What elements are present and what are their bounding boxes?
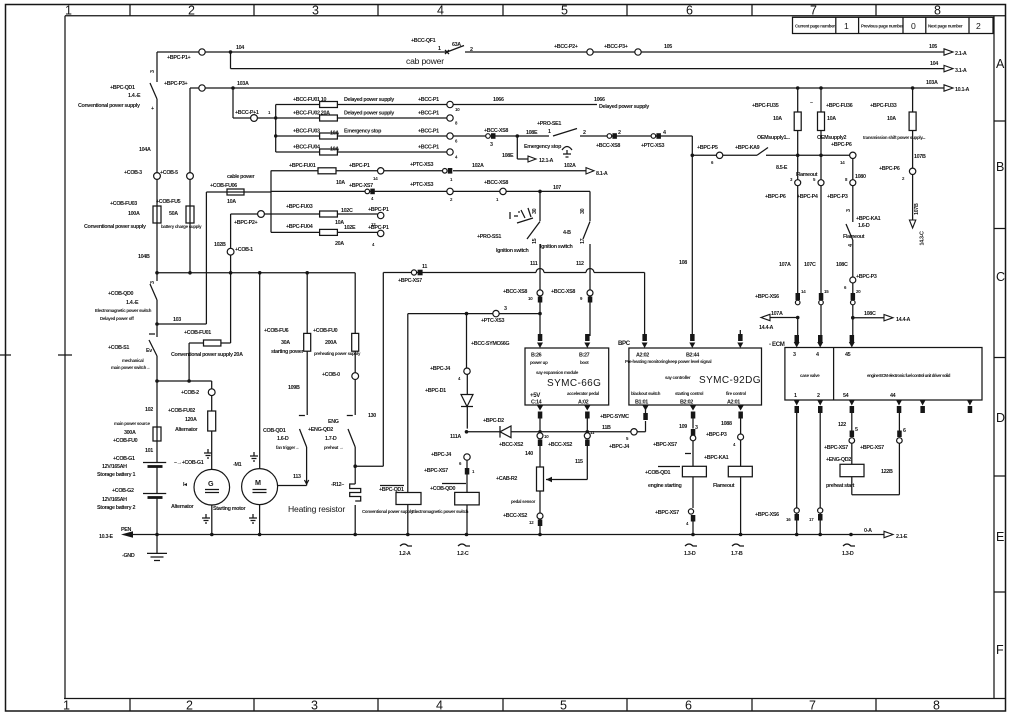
svg-text:+BPC-P3: +BPC-P3 xyxy=(706,432,727,438)
R2 wiper from XS2-11 xyxy=(546,446,587,480)
svg-text:3: 3 xyxy=(312,4,319,18)
svg-text:+BCC-FU04: +BCC-FU04 xyxy=(293,145,320,151)
connector circle +COB-0 xyxy=(352,373,359,380)
connector circle +BPC-P3+ xyxy=(199,85,205,91)
svg-text:1.7-D: 1.7-D xyxy=(325,436,337,442)
svg-text:12V/165AH: 12V/165AH xyxy=(102,464,127,470)
svg-text:engine ECM electronic fuel con: engine ECM electronic fuel control unit … xyxy=(867,373,951,378)
wire after SE1 xyxy=(580,135,692,137)
svg-text:108C: 108C xyxy=(836,262,848,268)
svg-text:3: 3 xyxy=(150,70,156,73)
pin A2:02 top xyxy=(642,334,647,341)
pin A2:01 bottom xyxy=(738,406,744,411)
svg-text:+PTC-XS3: +PTC-XS3 xyxy=(641,143,664,149)
svg-text:100A: 100A xyxy=(128,211,140,217)
wire M1 feed from QD1 contact xyxy=(278,447,307,486)
wire ignition feed line y=313.6 xyxy=(408,313,540,315)
svg-text:10A: 10A xyxy=(887,116,896,122)
svg-text:45: 45 xyxy=(845,352,851,358)
relay coil +ENG-QD2 preheat xyxy=(840,464,864,476)
svg-text:3: 3 xyxy=(695,425,698,431)
svg-text:+COB-FU6: +COB-FU6 xyxy=(264,328,289,334)
fuse row +BPC-FU01 10A xyxy=(271,170,447,172)
wire ECM pin2 to bus xyxy=(819,413,821,535)
svg-text:120A: 120A xyxy=(185,417,197,423)
wire column COB-1 xyxy=(230,214,232,343)
svg-text:+BCC-XS8: +BCC-XS8 xyxy=(484,180,508,186)
fuse +COB-FU02 120A xyxy=(208,411,216,431)
svg-text:-M1: -M1 xyxy=(233,462,242,468)
svg-text:+BCC-P3+: +BCC-P3+ xyxy=(604,44,628,50)
wire column COB-5 xyxy=(189,88,191,273)
svg-text:+COB-FU0: +COB-FU0 xyxy=(313,328,338,334)
svg-text:+BPC-XS7: +BPC-XS7 xyxy=(655,510,679,516)
SE1 mushroom actuator xyxy=(562,147,572,158)
svg-text:Delayed power supply: Delayed power supply xyxy=(344,111,394,117)
wire bus end arrow 0-A 2.1-E xyxy=(884,531,893,537)
svg-text:3: 3 xyxy=(150,281,156,284)
svg-text:+BPC-FU03: +BPC-FU03 xyxy=(286,204,313,210)
wire KA1 column xyxy=(852,159,854,336)
svg-text:108E: 108E xyxy=(502,153,514,159)
switch +COB-QD0 electromagnetic power switch xyxy=(150,273,157,324)
svg-text:122B: 122B xyxy=(881,469,893,475)
svg-text:+BPC-FU01: +BPC-FU01 xyxy=(289,163,316,169)
column ticks top xyxy=(130,5,876,16)
svg-text:+BPC-FU04: +BPC-FU04 xyxy=(286,224,313,230)
svg-text:+BPC-P6: +BPC-P6 xyxy=(765,194,786,200)
svg-text:108C: 108C xyxy=(864,311,876,317)
svg-text:+BPC-P4: +BPC-P4 xyxy=(797,194,818,200)
svg-text:+BPC-XS6: +BPC-XS6 xyxy=(755,294,779,300)
svg-text:BPC: BPC xyxy=(618,340,631,347)
svg-text:30A: 30A xyxy=(281,340,290,346)
connector circle+pin +BCC-XS2 pin10 xyxy=(537,433,543,439)
svg-text:105: 105 xyxy=(929,44,937,50)
svg-text:113: 113 xyxy=(293,474,301,480)
svg-text:Delayed power off: Delayed power off xyxy=(100,316,134,321)
svg-text:1066: 1066 xyxy=(493,97,504,103)
svg-text:+BPC-SYMC: +BPC-SYMC xyxy=(600,414,629,420)
svg-text:say controller: say controller xyxy=(665,375,691,380)
switch +COB-S1 main power switch xyxy=(149,324,157,381)
svg-text:1.6-D: 1.6-D xyxy=(858,223,870,229)
svg-text:Ignition switch: Ignition switch xyxy=(496,248,529,254)
svg-text:2: 2 xyxy=(188,4,195,18)
fuse +COB-FU0 200A preheating power xyxy=(354,273,356,373)
wire 103A drop to BCC fuse block xyxy=(233,88,276,118)
svg-text:+BPC-P3+: +BPC-P3+ xyxy=(164,81,187,87)
svg-text:+BPC-P3: +BPC-P3 xyxy=(827,194,848,200)
chassis mark above M xyxy=(250,452,258,461)
node 103A junction xyxy=(231,86,235,90)
connector circle +BCC-XS8 pin1 xyxy=(500,188,506,194)
svg-text:+BPC-XS7: +BPC-XS7 xyxy=(349,183,373,189)
svg-text:1: 1 xyxy=(63,699,70,713)
svg-text:+BPC-D2: +BPC-D2 xyxy=(483,418,504,424)
svg-text:1.2-A: 1.2-A xyxy=(399,551,411,557)
relay contact +BPC-KA1 flameout xyxy=(846,186,853,240)
svg-text:+ENG-QD2: +ENG-QD2 xyxy=(826,457,851,463)
svg-text:12V/165AH: 12V/165AH xyxy=(102,497,127,503)
connector circle +BPC-P6 pin3 xyxy=(795,180,801,186)
wire engine start relay column xyxy=(692,419,694,467)
ECU box -ECM xyxy=(785,348,982,401)
wire emergency stop row to SE1 xyxy=(453,135,549,137)
svg-text:108: 108 xyxy=(679,260,687,266)
connector circle +PTC-XS3 pin3 xyxy=(493,310,499,316)
svg-text:4-B: 4-B xyxy=(563,230,571,236)
svg-text:Previous page number: Previous page number xyxy=(861,24,904,29)
svg-text:Conventional power supply 20A: Conventional power supply 20A xyxy=(171,352,243,358)
connector +BCC-XS8 pin2 xyxy=(612,133,617,139)
svg-text:+PRO-SE1: +PRO-SE1 xyxy=(537,121,561,127)
svg-text:1.4.-E: 1.4.-E xyxy=(126,300,139,306)
wire net 103A xyxy=(190,87,944,89)
svg-text:4: 4 xyxy=(437,4,444,18)
svg-text:0-A: 0-A xyxy=(864,528,872,534)
wire FU01 conventional supply loop xyxy=(157,343,231,389)
contactor COB-QD1 fan trigger xyxy=(299,416,307,448)
node B26 junction xyxy=(538,312,542,316)
connector +BPC-XS7 pin4 xyxy=(370,189,375,195)
svg-text:+BCC-XS2: +BCC-XS2 xyxy=(503,513,527,519)
svg-text:+COB-2: +COB-2 xyxy=(181,390,199,396)
svg-text:ENG: ENG xyxy=(328,419,339,425)
svg-text:1: 1 xyxy=(548,129,551,135)
svg-text:cable power: cable power xyxy=(227,174,256,180)
svg-text:+COB-QD0: +COB-QD0 xyxy=(108,291,134,297)
svg-text:blackout switch: blackout switch xyxy=(631,391,661,396)
svg-text:+COB-FU03: +COB-FU03 xyxy=(110,201,137,207)
svg-text:3: 3 xyxy=(793,352,796,358)
svg-text:-GND: -GND xyxy=(122,553,135,559)
node 103 junction xyxy=(155,322,159,326)
svg-text:10.1-A: 10.1-A xyxy=(955,87,970,93)
svg-text:200A: 200A xyxy=(325,340,337,346)
fuse +COB-FU5 50A xyxy=(186,206,194,223)
svg-text:+BPC-P3: +BPC-P3 xyxy=(856,274,877,280)
battery +COB-G1 12V/165AH xyxy=(143,462,166,464)
flag PEN 10.3-E xyxy=(121,531,133,537)
svg-text:50A: 50A xyxy=(169,211,178,217)
svg-text:mechanical: mechanical xyxy=(122,358,143,363)
svg-text:+PTC-XS3: +PTC-XS3 xyxy=(410,162,433,168)
svg-text:+BPC-XS7: +BPC-XS7 xyxy=(398,278,422,284)
connector circle +BPC-J4 pin4 xyxy=(464,368,470,374)
connector circle+pin +BCC-XS2 pin12 xyxy=(537,513,543,519)
node QD2 output junction xyxy=(353,464,357,468)
svg-text:SYMC-92DG: SYMC-92DG xyxy=(699,375,761,386)
svg-text:2: 2 xyxy=(817,393,820,399)
svg-text:11B: 11B xyxy=(602,425,611,431)
node XS2-10 junction xyxy=(538,430,542,434)
svg-text:122: 122 xyxy=(838,422,846,428)
node junction P5 line xyxy=(691,154,695,158)
svg-text:1.2-C: 1.2-C xyxy=(457,551,469,557)
svg-text:Ignition switch: Ignition switch xyxy=(540,244,573,250)
svg-text:+COB-FU01: +COB-FU01 xyxy=(184,330,211,336)
svg-text:14.4-A: 14.4-A xyxy=(896,317,911,323)
svg-text:B2:02: B2:02 xyxy=(680,400,693,406)
svg-text:111A: 111A xyxy=(450,434,461,440)
svg-text:keep power level signal: keep power level signal xyxy=(668,359,711,364)
svg-text:107A: 107A xyxy=(771,311,783,317)
svg-text:+BPC-KA1: +BPC-KA1 xyxy=(856,216,881,222)
pin A:02 bottom xyxy=(584,406,590,411)
connector circle +COB-3 xyxy=(154,173,161,180)
contactor +ENG-QD2 preheat xyxy=(347,379,355,466)
svg-text:+BCC-XS2: +BCC-XS2 xyxy=(499,442,523,448)
connector circle +BPC-P3 pin8 xyxy=(850,180,856,186)
svg-text:11: 11 xyxy=(422,264,427,270)
svg-text:30: 30 xyxy=(532,208,538,214)
battery +COB-G2 12V/165AH xyxy=(143,493,166,495)
svg-text:7: 7 xyxy=(810,4,817,18)
svg-text:+COB-FU06: +COB-FU06 xyxy=(210,183,237,189)
svg-text:8.1-A: 8.1-A xyxy=(596,171,608,177)
svg-text:1: 1 xyxy=(844,21,849,31)
svg-text:pedal sensor: pedal sensor xyxy=(511,499,536,504)
fuse +COB-FU03 100A xyxy=(153,206,161,223)
svg-text:Conventional power supply: Conventional power supply xyxy=(78,103,140,109)
svg-text:102E: 102E xyxy=(344,225,356,231)
svg-text:102B: 102B xyxy=(214,242,226,248)
svg-text:+BCC-P+1: +BCC-P+1 xyxy=(235,110,259,116)
svg-text:+COB-G1: +COB-G1 xyxy=(113,456,135,462)
svg-text:10.3-E: 10.3-E xyxy=(99,534,114,540)
svg-text:1066: 1066 xyxy=(594,97,605,103)
svg-text:4: 4 xyxy=(848,244,854,247)
svg-text:boot: boot xyxy=(580,360,589,365)
svg-text:+BPC-XS7: +BPC-XS7 xyxy=(424,468,448,474)
svg-text:17: 17 xyxy=(580,238,586,244)
svg-text:5: 5 xyxy=(561,4,568,18)
ignition switch pole 1 (+PRO-SS1) xyxy=(527,191,540,336)
svg-text:OEMsupply1...: OEMsupply1... xyxy=(757,135,790,141)
fuse row +BCC-FU04 10A xyxy=(276,151,447,153)
wire XS7-11 line to SYMC-92DG A2:02 xyxy=(383,273,644,336)
ground symbol -GND xyxy=(147,535,167,561)
BPC fuse block bus xyxy=(270,171,272,233)
svg-text:+BPC-J4: +BPC-J4 xyxy=(609,444,629,450)
svg-text:C:14: C:14 xyxy=(531,400,542,406)
svg-text:7: 7 xyxy=(809,699,816,713)
svg-text:Conventional power supply ↔: Conventional power supply ↔ xyxy=(362,509,418,514)
svg-text:+BPC-J4: +BPC-J4 xyxy=(430,366,450,372)
svg-text:+BCC-XS8: +BCC-XS8 xyxy=(596,143,620,149)
svg-text:Storage battery 1: Storage battery 1 xyxy=(97,472,135,478)
svg-text:+BCC-XS2: +BCC-XS2 xyxy=(548,442,572,448)
connector circle+pin +BCC-XS2 pin11 xyxy=(584,433,590,439)
svg-text:130: 130 xyxy=(368,413,376,419)
svg-text:- ECM: - ECM xyxy=(769,341,785,348)
svg-text:+PTC-XS3: +PTC-XS3 xyxy=(410,182,433,188)
ECU box SYMC-92DG xyxy=(629,348,762,405)
node 108C junction + arrow 14.4-A right xyxy=(851,316,855,320)
connector +BPC-SYMC into B1:01 xyxy=(643,413,648,420)
svg-text:+COB-S1: +COB-S1 xyxy=(108,345,129,351)
svg-text:+COB-FU5: +COB-FU5 xyxy=(156,199,181,205)
svg-text:108E: 108E xyxy=(526,130,538,136)
wire M1 column from bus xyxy=(259,273,261,469)
diode +BPC-D2 xyxy=(500,426,511,438)
svg-text:+COB-FU02: +COB-FU02 xyxy=(168,408,195,414)
svg-text:Alternator: Alternator xyxy=(171,504,195,510)
alternator G machine xyxy=(194,469,230,505)
svg-text:2: 2 xyxy=(470,47,473,53)
svg-text:14.3-C: 14.3-C xyxy=(920,231,926,246)
svg-text:3: 3 xyxy=(504,306,507,312)
relay contact +BPC-KA9 xyxy=(757,148,768,156)
svg-text:6: 6 xyxy=(685,699,692,713)
svg-text:Delayed power supply: Delayed power supply xyxy=(344,97,394,103)
svg-text:Electromagnetic power switch: Electromagnetic power switch xyxy=(412,509,469,514)
svg-text:+COB-0: +COB-0 xyxy=(322,372,340,378)
svg-text:Current page number: Current page number xyxy=(795,24,835,29)
pin stub bottom 5th xyxy=(920,400,926,406)
connector circle +BCC-P+1 xyxy=(251,115,258,122)
flag 1.3-D xyxy=(685,544,697,546)
svg-text:1.4.-E: 1.4.-E xyxy=(128,93,141,99)
wire row XS7-4 / XS3-2 / XS8-1 xyxy=(271,190,590,192)
svg-text:M: M xyxy=(255,478,261,487)
ground bus wire xyxy=(133,534,884,536)
fuse +BPC-FU36 10A column xyxy=(820,88,822,335)
svg-text:+COB-G2: +COB-G2 xyxy=(112,488,134,494)
svg-text:+BCC-SYMC66G: +BCC-SYMC66G xyxy=(471,341,509,347)
connector circle +BPC-P6 pin14 on KA9 line xyxy=(850,152,856,158)
main distribution bus left xyxy=(157,272,355,274)
svg-text:Pre-heating monitoring: Pre-heating monitoring xyxy=(625,359,668,364)
svg-text:8: 8 xyxy=(934,4,941,18)
svg-text:54: 54 xyxy=(843,393,849,399)
svg-text:B2:44: B2:44 xyxy=(686,353,699,359)
svg-text:+BCC-P1: +BCC-P1 xyxy=(418,111,439,117)
node D1 junction xyxy=(465,312,469,316)
pin B2:02 bottom xyxy=(690,406,696,411)
svg-text:E: E xyxy=(996,530,1004,544)
svg-text:2.1-E: 2.1-E xyxy=(896,534,908,540)
svg-text:SYMC-66G: SYMC-66G xyxy=(547,378,601,389)
wire 108 column xyxy=(691,136,693,336)
flag 1.3-D right xyxy=(849,533,853,537)
fuse +COB-FU6 30A starting power xyxy=(306,273,308,415)
SS1 key position marks xyxy=(510,208,533,223)
switch +BPC-QD1 (conventional power supply) xyxy=(150,52,157,273)
svg-text:3: 3 xyxy=(490,142,493,148)
svg-text:10A: 10A xyxy=(330,147,339,153)
node 104 junction xyxy=(229,50,233,54)
svg-text:109B: 109B xyxy=(288,385,300,391)
svg-text:+BPC-KA9: +BPC-KA9 xyxy=(735,145,760,151)
svg-text:+BPC-P1: +BPC-P1 xyxy=(368,207,389,213)
svg-text:+COB-QD0: +COB-QD0 xyxy=(430,486,456,492)
svg-text:B:26: B:26 xyxy=(531,353,542,359)
svg-text:C: C xyxy=(996,270,1005,284)
svg-text:main power source: main power source xyxy=(114,421,151,426)
svg-text:–→+COB-G1: –→+COB-G1 xyxy=(174,460,204,466)
wire net 104 second line xyxy=(231,52,945,69)
svg-text:Conventional power supply: Conventional power supply xyxy=(84,224,146,230)
svg-text:1.7-B: 1.7-B xyxy=(731,551,743,557)
chassis mark above G xyxy=(204,449,212,458)
wire net 130 up to XS7-11 line xyxy=(355,273,383,467)
svg-text:+BPC-P6: +BPC-P6 xyxy=(831,142,852,148)
svg-text:30: 30 xyxy=(580,208,586,214)
svg-text:+BPC-P5: +BPC-P5 xyxy=(697,145,718,151)
connector circle +BCC-P2 xyxy=(587,49,593,55)
svg-text:Electromagnetic power switch: Electromagnetic power switch xyxy=(95,308,152,313)
svg-text:A: A xyxy=(996,57,1005,71)
off-page arrow 12.1-A xyxy=(517,136,528,159)
connector circle +BPC-P1 xyxy=(199,49,205,55)
BCC fuse block bus xyxy=(275,105,277,153)
svg-text:2: 2 xyxy=(618,130,621,136)
svg-text:104A: 104A xyxy=(139,147,151,153)
svg-text:+BPC-XS7: +BPC-XS7 xyxy=(824,445,848,451)
svg-text:63A: 63A xyxy=(452,42,461,48)
svg-text:1.3-D: 1.3-D xyxy=(842,551,854,557)
svg-text:10A: 10A xyxy=(773,116,782,122)
pin C:14 bottom xyxy=(537,406,543,411)
svg-text:2.1-A: 2.1-A xyxy=(955,51,967,57)
svg-text:+BCC-P2+: +BCC-P2+ xyxy=(554,44,578,50)
relay coil +BPC-QD1 xyxy=(407,314,409,493)
svg-text:+BCC-FU03: +BCC-FU03 xyxy=(293,129,320,135)
wire ECM pin54 preheat loop xyxy=(851,413,853,431)
connector +BPC-XS6 pin17 xyxy=(818,508,823,513)
svg-text:+PRO-SS1: +PRO-SS1 xyxy=(477,234,501,240)
svg-text:fire control: fire control xyxy=(726,391,746,396)
svg-text:102A: 102A xyxy=(564,163,576,169)
fuse row +BPC-FU04 20A 102E xyxy=(271,231,378,233)
svg-text:+BCC-P1: +BCC-P1 xyxy=(418,97,439,103)
svg-text:+BPC-P1+: +BPC-P1+ xyxy=(167,55,190,61)
svg-text:10A: 10A xyxy=(330,131,339,137)
svg-text:A:02: A:02 xyxy=(578,400,589,406)
svg-text:Ev: Ev xyxy=(146,348,152,354)
fuse row +BCC-FU02 20A delayed power supply xyxy=(276,117,447,119)
svg-text:A2:01: A2:01 xyxy=(727,400,740,406)
svg-text:+BPC-QD1: +BPC-QD1 xyxy=(110,85,135,91)
svg-text:transmission shift power suppl: transmission shift power supply... xyxy=(863,135,925,140)
svg-text:main power switch→: main power switch→ xyxy=(111,365,150,370)
diode D1 symbol xyxy=(461,395,473,407)
svg-text:+BPC-XS6: +BPC-XS6 xyxy=(755,512,779,518)
svg-text:+BPC-P2+: +BPC-P2+ xyxy=(234,220,257,226)
connector +PTC-XS3 pin4 xyxy=(656,133,661,139)
connector +BPC-XS7 pin4 bottom xyxy=(688,509,693,514)
svg-text:PEN: PEN xyxy=(121,527,131,533)
svg-text:105: 105 xyxy=(664,44,672,50)
svg-text:+COB-QD1: +COB-QD1 xyxy=(645,470,671,476)
svg-text:3.1-A: 3.1-A xyxy=(955,68,967,74)
column ticks bottom xyxy=(130,699,876,712)
svg-text:1080: 1080 xyxy=(855,174,866,180)
potentiometer +CAB-R2 accelerator pedal xyxy=(539,446,541,467)
svg-text:+COB-5: +COB-5 xyxy=(160,170,178,176)
svg-text:5: 5 xyxy=(560,699,567,713)
flag 1.7-B xyxy=(732,544,744,546)
wire net 1066 xyxy=(453,104,597,106)
svg-text:Next page number: Next page number xyxy=(928,24,963,29)
connector circle +BPC-J4 pin5 xyxy=(631,429,637,435)
svg-text:103A: 103A xyxy=(926,80,938,86)
svg-text:+BCC-XS8: +BCC-XS8 xyxy=(503,289,527,295)
connector circle+pin +BCC-XS8 pin9 xyxy=(587,290,593,296)
connector circle +BPC-P5 xyxy=(716,152,722,158)
